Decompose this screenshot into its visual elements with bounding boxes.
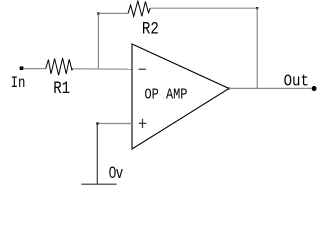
svg-text:Out: Out bbox=[284, 72, 309, 92]
resistor R2 bbox=[128, 1, 150, 16]
wire non-inverting input bbox=[97, 123, 132, 125]
node Out terminal bbox=[312, 87, 317, 90]
svg-text:R1: R1 bbox=[53, 79, 70, 99]
junction dot feedback top-right corner bbox=[256, 7, 258, 9]
op-amp non-inverting input pin (+) bbox=[139, 122, 147, 124]
node In terminal bbox=[20, 66, 24, 70]
svg-text:R2: R2 bbox=[142, 19, 159, 39]
junction at op-amp output tip bbox=[228, 87, 230, 89]
wire feedback vertical right bbox=[256, 8, 258, 88]
wire feedback vertical left bbox=[97, 13, 99, 69]
svg-text:OP AMP: OP AMP bbox=[145, 87, 188, 103]
junction dot feedback top-left corner bbox=[97, 12, 99, 14]
wire In to R1 bbox=[23, 68, 46, 70]
wire feedback top right bbox=[150, 7, 257, 9]
wire R1 to inverting input bbox=[73, 68, 132, 70]
svg-text:In: In bbox=[11, 75, 26, 93]
wire ground lead vertical bbox=[96, 124, 98, 185]
wire output bbox=[229, 87, 312, 89]
op-amp inverting input pin (-) bbox=[139, 68, 147, 70]
resistor R1 bbox=[46, 58, 73, 75]
op-amp U1 bbox=[132, 44, 229, 149]
wire feedback top left bbox=[98, 12, 128, 14]
junction dot non-inverting corner bbox=[96, 122, 98, 124]
svg-text:0v: 0v bbox=[109, 164, 124, 183]
ground 0v bar bbox=[81, 183, 116, 185]
